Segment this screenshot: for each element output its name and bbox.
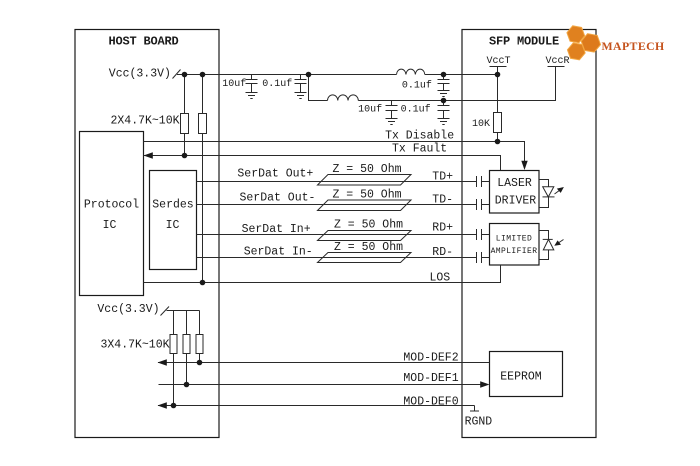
MOD-DEF0 wire [158, 405, 475, 407]
transmission line 3 [318, 231, 412, 241]
light emission arrow [555, 189, 563, 195]
svg-text:MOD-DEF0: MOD-DEF0 [403, 395, 458, 408]
MOD-DEF1 arrow into EEPROM [480, 381, 489, 387]
svg-text:TD+: TD+ [432, 171, 453, 184]
RGND symbol [470, 406, 479, 412]
resistor R3 body [494, 113, 502, 133]
svg-text:LIMITED: LIMITED [496, 235, 532, 244]
svg-text:Vcc(3.3V): Vcc(3.3V) [97, 303, 159, 316]
inductor L2 on filter rail [328, 95, 359, 101]
SFP module outline [462, 30, 596, 438]
laser driver box [490, 171, 540, 214]
capacitor C4 to ground [386, 101, 398, 125]
power tap slash top [173, 70, 181, 79]
limited amplifier box [490, 224, 540, 266]
Tx Disable wire [144, 142, 525, 163]
svg-text:Vcc(3.3V): Vcc(3.3V) [109, 68, 171, 81]
svg-text:IC: IC [103, 219, 117, 232]
wire coil to VccT [425, 74, 498, 76]
svg-text:SerDat Out-: SerDat Out- [240, 192, 316, 205]
svg-text:RD-: RD- [432, 246, 453, 259]
arrow into laser driver [521, 161, 527, 170]
svg-text:Tx Disable: Tx Disable [385, 129, 454, 142]
logo hexagon top [566, 25, 586, 43]
VccR bar [548, 66, 565, 68]
SerDat In- wire [197, 257, 490, 259]
LOS wire [144, 265, 501, 283]
Protocol IC box [80, 132, 144, 296]
coupling cap on RD+ [477, 229, 482, 240]
MOD-DEF2 wire [158, 362, 490, 364]
svg-text:VccT: VccT [486, 56, 510, 67]
resistor R4 [173, 311, 175, 335]
MOD-DEF1 wire [159, 384, 482, 386]
3.3V top rail wire [177, 74, 397, 76]
svg-text:Z = 50 Ohm: Z = 50 Ohm [334, 219, 403, 232]
coupling cap on TD- [477, 199, 482, 210]
svg-text:RD+: RD+ [432, 222, 453, 235]
svg-text:LASER: LASER [497, 177, 532, 190]
resistor R2 [202, 75, 204, 114]
SerDat Out+ wire [197, 181, 490, 183]
bottom Vcc bus wire [167, 310, 200, 312]
logo hexagon bottom [566, 42, 586, 60]
svg-text:3X4.7K~10K: 3X4.7K~10K [101, 339, 170, 352]
capacitor C3 to ground [438, 75, 450, 97]
transmission line 2 [318, 200, 412, 211]
coupling cap on RD- [477, 252, 482, 263]
LED D1 laser output [539, 180, 549, 208]
svg-text:0.1uf: 0.1uf [402, 80, 432, 92]
MOD-DEF0 left arrow [158, 402, 167, 408]
svg-text:EEPROM: EEPROM [500, 371, 542, 384]
svg-text:SerDat In-: SerDat In- [244, 246, 313, 259]
power tap slash bottom [161, 307, 170, 316]
filter rail wire to VccR [358, 67, 555, 101]
capacitor C2 to ground [295, 75, 307, 99]
svg-text:Tx Fault: Tx Fault [392, 143, 447, 156]
VccT bar [490, 67, 507, 113]
resistor R1 [184, 75, 186, 114]
logo hexagon right [580, 33, 602, 53]
svg-text:10K: 10K [472, 119, 490, 130]
host board outline [75, 30, 219, 438]
arrow into Protocol IC [144, 152, 153, 158]
svg-text:IC: IC [166, 219, 180, 232]
EEPROM box [490, 352, 563, 397]
Serdes IC box [150, 171, 197, 270]
SerDat Out- wire [197, 204, 490, 206]
coupling cap on TD+ [477, 176, 482, 187]
svg-text:10uf: 10uf [358, 104, 382, 116]
svg-text:10uf: 10uf [222, 78, 246, 90]
svg-text:0.1uf: 0.1uf [401, 104, 431, 116]
svg-text:SFP MODULE: SFP MODULE [489, 34, 559, 48]
junction node dots [182, 72, 188, 78]
svg-text:SerDat Out+: SerDat Out+ [237, 168, 313, 181]
inductor L1 on top rail [397, 69, 425, 74]
transmission line 1 [318, 175, 412, 186]
Tx Fault wire [144, 156, 501, 171]
svg-text:SerDat In+: SerDat In+ [242, 223, 311, 236]
resistor R6 [199, 311, 201, 335]
capacitor C5 to ground [438, 101, 450, 125]
svg-text:Protocol: Protocol [84, 199, 139, 212]
incoming light arrow [558, 240, 564, 244]
photodiode D2 receiver input [539, 231, 549, 260]
svg-text:Z = 50 Ohm: Z = 50 Ohm [333, 188, 402, 201]
svg-text:2X4.7K~10K: 2X4.7K~10K [111, 115, 180, 128]
svg-text:MAPTECH: MAPTECH [602, 39, 665, 53]
svg-text:MOD-DEF1: MOD-DEF1 [403, 372, 458, 385]
svg-text:HOST BOARD: HOST BOARD [108, 34, 178, 48]
svg-text:RGND: RGND [465, 416, 493, 429]
svg-text:AMPLIFIER: AMPLIFIER [491, 247, 538, 256]
capacitor C1 to ground [246, 75, 258, 99]
svg-text:VccR: VccR [545, 56, 569, 67]
transmission line 4 [318, 253, 412, 263]
svg-text:DRIVER: DRIVER [495, 195, 537, 208]
svg-text:Serdes: Serdes [152, 199, 193, 212]
MOD-DEF2 left arrow [158, 359, 167, 365]
resistor R5 [186, 311, 188, 335]
SerDat In+ wire [197, 234, 490, 236]
wire drop to filter rail [309, 75, 328, 101]
svg-text:0.1uf: 0.1uf [262, 78, 292, 90]
svg-text:TD-: TD- [432, 193, 453, 206]
